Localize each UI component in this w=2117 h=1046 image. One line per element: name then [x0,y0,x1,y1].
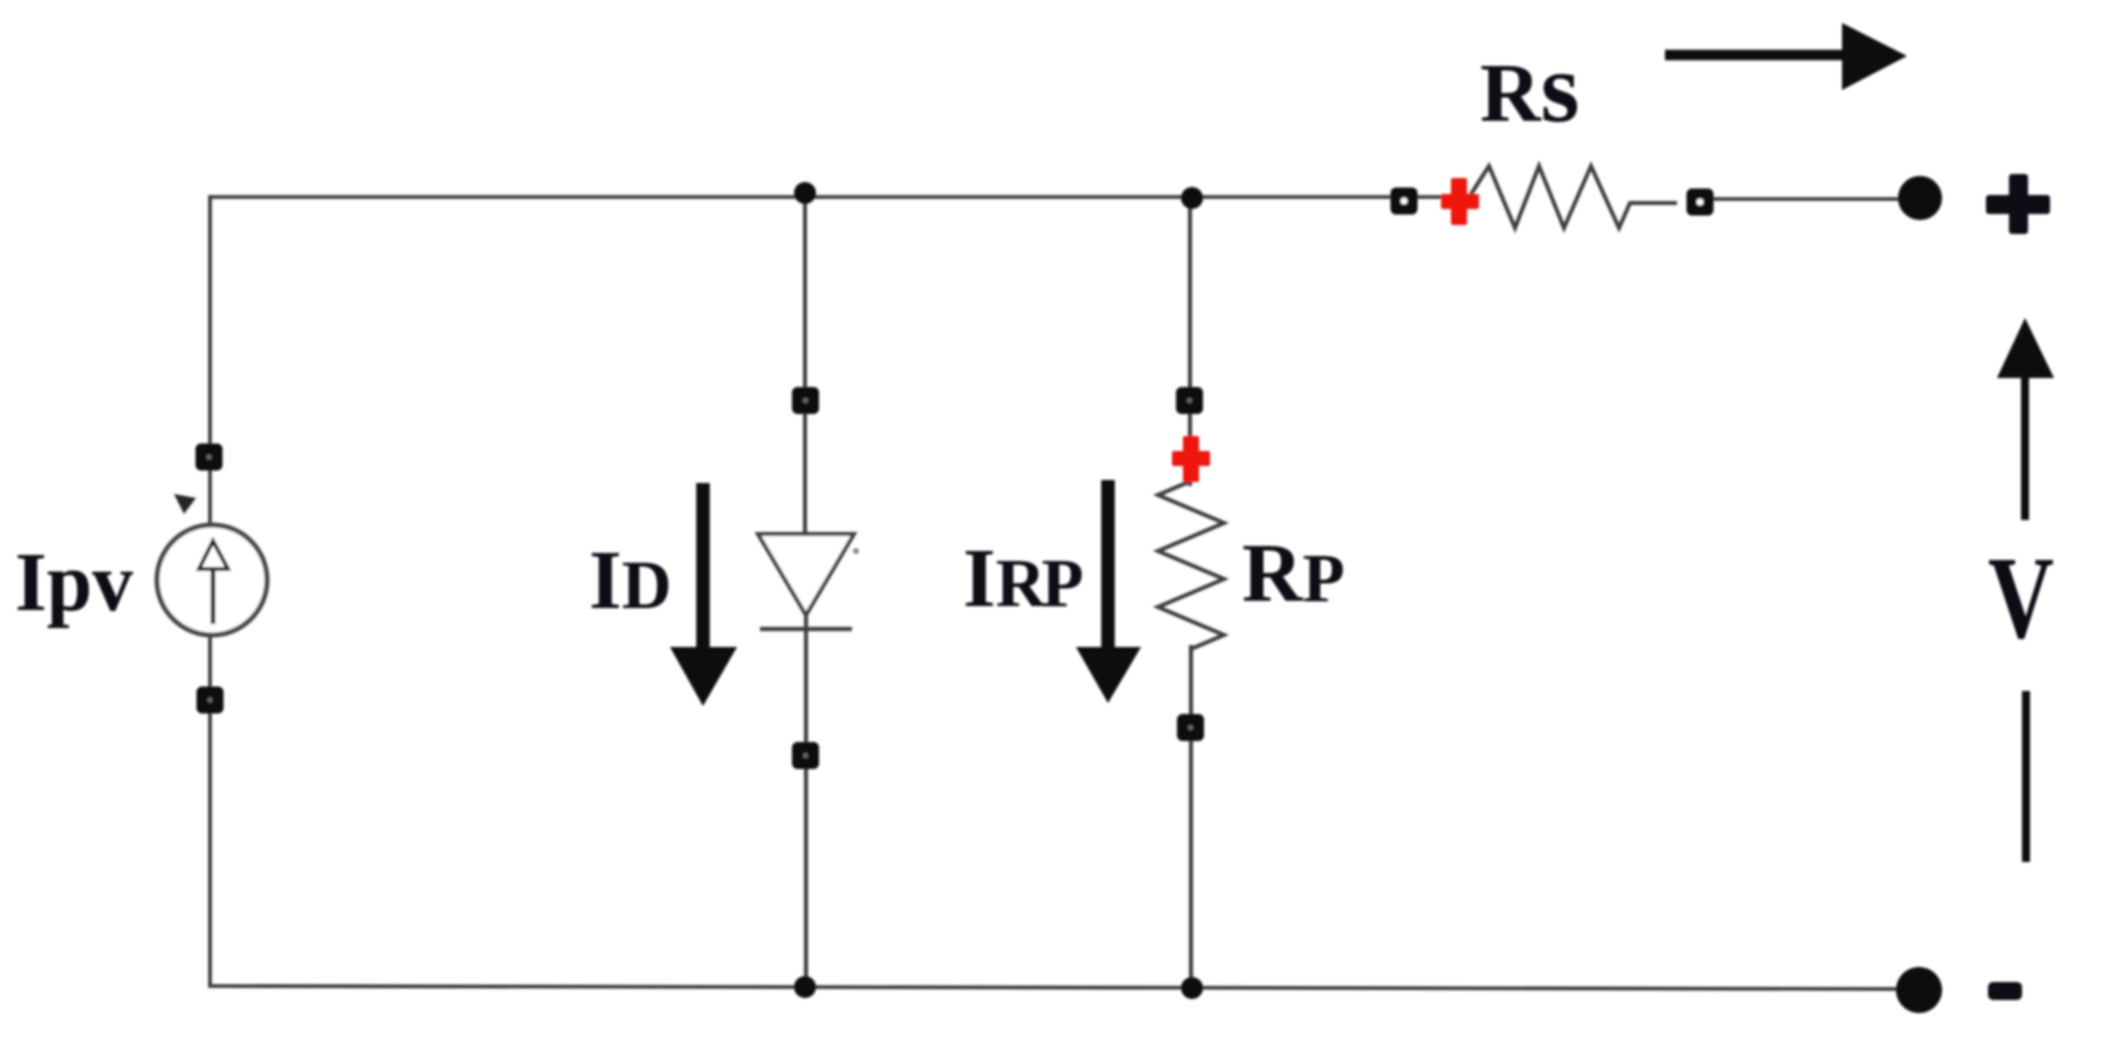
wire top from Rs right terminal to positive node [1712,197,1900,201]
terminal port square diode top [792,387,819,414]
red plus polarity Rs [1441,178,1479,225]
svg-text:RP: RP [1242,527,1345,620]
red plus polarity Rp [1172,436,1210,482]
svg-text:ID: ID [589,534,672,627]
current source internal arrow [211,569,216,624]
terminal port square Rs right [1687,189,1714,216]
minus terminal symbol bottom right [1988,982,2022,1000]
svg-text:Ipv: Ipv [15,536,133,629]
arrow ID (diode current) [696,483,710,650]
junction node diode top [794,182,816,204]
current source Ipv circle [157,525,267,635]
terminal port square Rp top [1176,387,1203,414]
junction node Rp bottom [1181,977,1203,999]
svg-text:IRP: IRP [963,532,1083,625]
output node positive terminal dot [1898,176,1942,220]
diode speck [853,548,859,554]
arrow V (output voltage) upper [2021,375,2029,520]
wire bottom bus [208,986,1898,989]
plus terminal symbol top right [1986,174,2050,234]
arrow IRP (shunt current) [1101,480,1115,650]
output node negative terminal dot [1896,967,1942,1013]
svg-text:V: V [1988,532,2054,663]
V lower line [2022,691,2030,862]
wire Rp branch vertical [1190,197,1191,988]
wire diode branch vertical [805,196,806,987]
wire left vertical (Ipv branch) [208,195,212,986]
junction node diode bottom [794,976,816,998]
wire top bus from left corner to Rs [210,195,1452,199]
junction node Rp top [1181,187,1203,209]
terminal port square Ipv top [196,444,223,471]
current source polarity tick [174,494,196,514]
resistor Rp zigzag [1158,481,1224,649]
svg-text:Rs: Rs [1480,32,1580,143]
resistor Rs zigzag [1455,166,1677,228]
terminal port square diode bottom [792,742,819,769]
diode cathode bar [760,627,852,631]
diode D triangle [758,534,854,615]
terminal port square Rp bottom [1177,714,1204,741]
terminal port square Rs left [1391,188,1418,215]
current direction arrow top right [1665,50,1848,61]
terminal port square Ipv bottom [197,687,224,714]
